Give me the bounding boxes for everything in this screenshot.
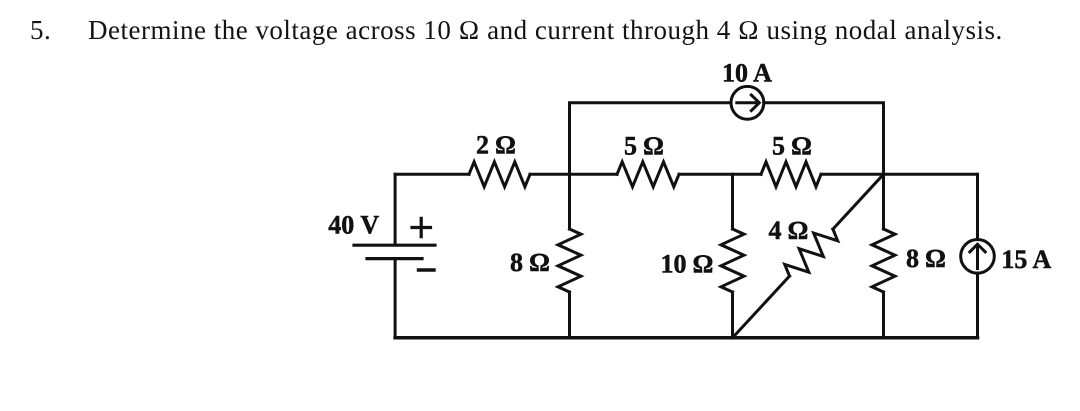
svg-text:10 A: 10 A (722, 58, 772, 87)
wire: node1 rail lower (8ohm to bottom) (568, 292, 571, 338)
resistor R 2ohm (469, 162, 530, 187)
current source I2 arrow (970, 244, 985, 268)
svg-text:8 Ω: 8 Ω (510, 248, 550, 277)
wire: node1 rail upper (middle wire to 8ohm) (568, 174, 571, 229)
current source I1 10A circle (731, 86, 764, 119)
resistor R 8ohm left (558, 229, 581, 292)
wire: middle horizontal between 2ohm and 5ohm (530, 173, 617, 176)
wire: middle horizontal left segment (left rail to 2ohm) (395, 173, 469, 176)
plus sign (412, 218, 431, 236)
voltage source V1 bottom wire (394, 260, 397, 338)
voltage source V1 40V top wire (394, 174, 397, 244)
resistor R 10ohm (721, 229, 744, 292)
voltage source V1 long plate (354, 244, 435, 247)
svg-text:5 Ω: 5 Ω (624, 132, 664, 161)
wire: node3 rail upper (middle junction to 8ohm right) (882, 174, 885, 229)
current source I1 arrow (737, 95, 760, 111)
wire: middle horizontal between 5ohm and 5ohm (679, 173, 761, 176)
voltage source V1 short plate (367, 257, 422, 260)
wire: node2 rail upper (middle wire to 10ohm) (731, 174, 734, 229)
svg-text:2 Ω: 2 Ω (476, 131, 516, 160)
wire: middle horizontal right segment (5ohm to right rail) (821, 173, 978, 176)
svg-text:4 Ω: 4 Ω (769, 216, 809, 245)
resistor R 5ohm right (761, 162, 821, 187)
wire: node3 rail lower (8ohm right to bottom) (882, 292, 885, 338)
svg-text:40 V: 40 V (328, 210, 379, 239)
svg-text:15 A: 15 A (1001, 245, 1051, 274)
wire: top loop left horizontal (node1 to 10A source) (570, 103, 732, 175)
wire: diagonal lower segment (bottom node to 4ohm) (733, 276, 790, 338)
minus sign (419, 268, 435, 271)
svg-text:10 Ω: 10 Ω (661, 249, 714, 278)
wire: bottom horizontal (395, 336, 977, 340)
wire: right rail upper (middle wire to 15A source) (976, 174, 979, 239)
wire: diagonal upper segment (4ohm to node3) (833, 174, 884, 229)
problem title text (0, 0, 1080, 1)
resistor R 8ohm right (872, 229, 895, 292)
svg-text:8 Ω: 8 Ω (906, 244, 946, 273)
svg-text:5 Ω: 5 Ω (772, 132, 812, 161)
wire: node2 rail lower (10ohm to bottom) (731, 292, 734, 338)
wire: right rail lower (15A source to bottom) (976, 273, 979, 338)
current source I2 15A circle (961, 239, 995, 273)
resistor R 4ohm diagonal (785, 229, 838, 276)
wire: top loop right horizontal (10A source to node3 rail) (764, 103, 884, 229)
resistor R 5ohm left (617, 162, 679, 187)
